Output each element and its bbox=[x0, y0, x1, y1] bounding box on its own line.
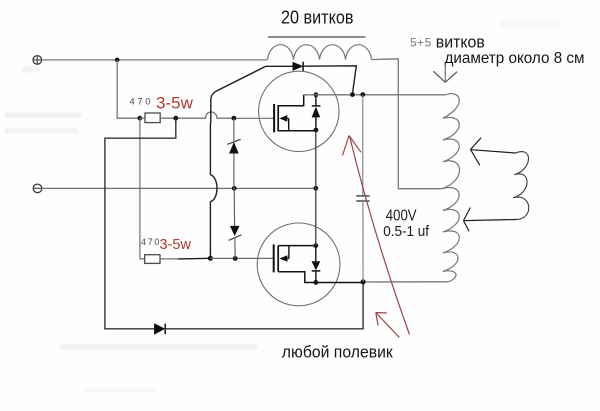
diode D4 (feedback, bottom) bbox=[154, 323, 165, 335]
inductor L1 (20 turns primary, schematic humps) bbox=[268, 45, 372, 60]
wire D3 cathode to top drain node bbox=[303, 66, 356, 95]
wire -V rail bbox=[42, 187, 316, 189]
terminal - (negative supply) bbox=[33, 184, 43, 193]
node drain/capacitor top bbox=[360, 92, 365, 97]
wire L1 to coil center tap bbox=[372, 59, 442, 189]
wire R1 left lead bbox=[140, 117, 145, 119]
node zener D1 top junction bbox=[232, 116, 237, 121]
svg-text:витков: витков bbox=[436, 34, 485, 52]
svg-text:0.5-1 uf: 0.5-1 uf bbox=[383, 223, 430, 240]
MOSFET Q2 (bottom) bbox=[257, 223, 363, 306]
svg-text:400V: 400V bbox=[386, 207, 417, 224]
label bracket over L1 bbox=[268, 36, 366, 38]
svg-text:470: 470 bbox=[141, 237, 161, 247]
wire bottom gate lead to Q2 bbox=[210, 257, 273, 259]
svg-text:диаметр около 8 см: диаметр около 8 см bbox=[445, 50, 585, 67]
svg-text:20 витков: 20 витков bbox=[281, 7, 354, 27]
svg-text:470: 470 bbox=[130, 96, 154, 107]
wire supply drop to R1 bbox=[117, 60, 140, 118]
wire Q2 drain line to coil bottom bbox=[363, 281, 447, 283]
wire sources vertical (Q1 source to Q2 source) bbox=[315, 131, 317, 246]
zener diode D1 (top gate clamp) bbox=[227, 118, 240, 188]
resistor R2 bbox=[145, 255, 160, 264]
node bottom gate junction bbox=[208, 256, 213, 261]
wire cross-coupling: top gate to bottom drain bbox=[105, 118, 176, 329]
terminal + (positive supply) bbox=[33, 55, 43, 65]
wire feedback top lead with arrow bbox=[471, 138, 516, 166]
red annotation arrow (short, pointing at FET) bbox=[376, 313, 400, 338]
node rail / zener junction bbox=[232, 186, 237, 191]
node drain/cross diode bbox=[350, 92, 355, 97]
node R1 left bbox=[138, 116, 143, 121]
wire D4 cathode to bottom drain node bbox=[165, 282, 363, 329]
svg-text:5+5: 5+5 bbox=[410, 35, 432, 49]
node rail end at sources bbox=[313, 186, 318, 191]
diode D3 (feedback, top) bbox=[266, 62, 304, 71]
wire cross-coupling: bottom gate up with hop over rail bbox=[210, 66, 265, 258]
node drain/capacitor bottom bbox=[361, 279, 366, 284]
wire supply vertical to R2 bbox=[140, 118, 145, 259]
wire top gate lead into Q1 bbox=[234, 117, 274, 119]
svg-text:3-5w: 3-5w bbox=[160, 237, 192, 253]
wire Q1 drain line to coil top bbox=[304, 94, 446, 96]
feedback winding (5+5) small coil bbox=[513, 152, 529, 220]
svg-text:любой полевик: любой полевик bbox=[282, 342, 394, 361]
capacitor C1 bbox=[356, 95, 369, 282]
node zener D2 bottom junction bbox=[233, 256, 238, 261]
resistor R1 bbox=[145, 113, 160, 123]
wire R2 right lead bbox=[160, 258, 178, 260]
coil main winding (physical drawing) bbox=[442, 94, 460, 282]
zener diode D2 (bottom gate clamp) bbox=[229, 188, 242, 258]
MOSFET Q1 (top) bbox=[259, 71, 339, 151]
wire +V rail bbox=[42, 59, 268, 61]
red annotation line (long, pointing at FET) bbox=[343, 136, 410, 335]
node R1 right (gate node A) bbox=[173, 116, 178, 121]
svg-text:3-5w: 3-5w bbox=[156, 94, 194, 113]
wire R1 right lead with hop over cross wire bbox=[160, 112, 234, 118]
arrow pointing down at coil bbox=[433, 64, 457, 83]
wire feedback bottom lead with arrow bbox=[464, 208, 517, 232]
node supply junction bbox=[115, 58, 120, 63]
